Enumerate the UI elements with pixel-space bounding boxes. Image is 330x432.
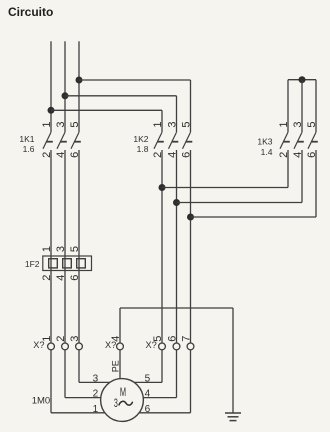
svg-text:1: 1	[152, 122, 164, 128]
svg-text:3: 3	[93, 373, 99, 384]
svg-text:1.8: 1.8	[137, 144, 149, 154]
svg-text:7: 7	[181, 336, 193, 342]
svg-text:3: 3	[292, 122, 304, 128]
svg-text:5: 5	[69, 246, 81, 252]
svg-text:4: 4	[145, 389, 151, 400]
svg-text:5: 5	[152, 336, 164, 342]
svg-text:1: 1	[41, 336, 53, 342]
svg-text:6: 6	[145, 404, 151, 415]
svg-text:1M0: 1M0	[32, 395, 50, 406]
svg-text:M: M	[120, 387, 126, 400]
svg-text:2: 2	[41, 275, 53, 281]
svg-text:3: 3	[114, 397, 118, 410]
svg-text:1: 1	[41, 246, 53, 252]
svg-text:1K1: 1K1	[19, 134, 34, 144]
svg-text:5: 5	[69, 122, 81, 128]
svg-text:6: 6	[167, 336, 179, 342]
svg-text:6: 6	[69, 275, 81, 281]
svg-text:1K2: 1K2	[133, 134, 148, 144]
svg-text:3: 3	[55, 246, 67, 252]
svg-text:1.4: 1.4	[261, 147, 273, 157]
svg-text:3: 3	[167, 122, 179, 128]
svg-text:1: 1	[278, 122, 290, 128]
svg-text:PE: PE	[110, 360, 120, 372]
svg-text:4: 4	[55, 275, 67, 281]
svg-text:4: 4	[110, 336, 122, 342]
svg-text:1K3: 1K3	[257, 137, 272, 147]
svg-text:1: 1	[93, 404, 99, 415]
svg-text:1.6: 1.6	[23, 144, 35, 154]
svg-text:3: 3	[69, 336, 81, 342]
svg-text:3: 3	[55, 122, 67, 128]
svg-text:2: 2	[93, 389, 99, 400]
svg-text:5: 5	[306, 122, 318, 128]
svg-text:2: 2	[55, 336, 67, 342]
svg-text:1: 1	[41, 122, 53, 128]
svg-text:1F2: 1F2	[25, 259, 40, 269]
svg-text:5: 5	[145, 373, 151, 384]
svg-text:5: 5	[181, 122, 193, 128]
